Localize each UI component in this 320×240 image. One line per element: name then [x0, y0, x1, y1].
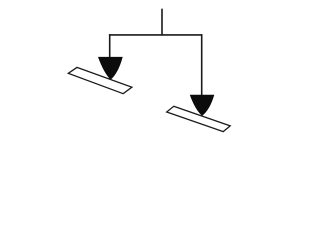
arrowhead right: [190, 95, 215, 116]
wire left branch: [109, 34, 111, 58]
wire right branch: [201, 34, 203, 96]
plate left (tilted bar): [68, 67, 132, 93]
wire horizontal bus: [109, 34, 203, 36]
plate right (tilted bar): [167, 106, 231, 131]
arrowhead left: [98, 57, 123, 80]
wire top stub: [161, 9, 163, 36]
